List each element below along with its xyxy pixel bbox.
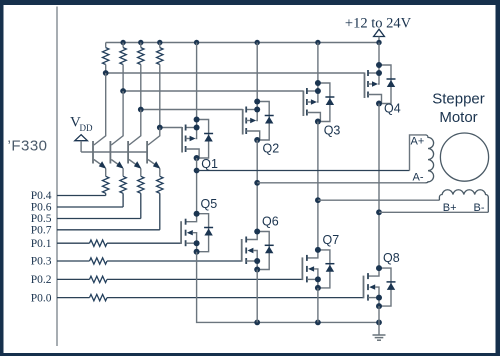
svg-text:P0.1: P0.1	[31, 238, 52, 250]
resistor emitter 1	[57, 169, 109, 196]
label Q3	[324, 124, 341, 138]
label Q4	[384, 102, 401, 116]
resistor emitter 3	[57, 169, 144, 219]
wire common base rail from VDD	[81, 151, 147, 153]
svg-text:P0.0: P0.0	[31, 292, 52, 304]
svg-text:Q7: Q7	[323, 233, 340, 247]
svg-text:Q5: Q5	[201, 197, 218, 211]
wire phase A-	[257, 182, 426, 184]
wire supply to Q4	[378, 43, 380, 66]
wire phase B+	[318, 199, 440, 201]
wire phase A+	[197, 135, 426, 171]
wire phase B-	[379, 211, 488, 213]
resistor gate pull-up R4	[157, 43, 163, 128]
label Q5	[201, 197, 218, 211]
label port P0.4	[31, 190, 52, 202]
svg-text:P0.4: P0.4	[31, 190, 52, 202]
svg-text:B+: B+	[443, 202, 457, 214]
label port P0.2	[31, 274, 52, 286]
label Q2	[263, 142, 280, 156]
wire gate drive to Q4 / node	[103, 70, 365, 76]
wire P0.0 with series resistor to gate	[57, 294, 364, 300]
transistor Q2 (high-side MOSFET)	[243, 99, 274, 144]
svg-text:P0.7: P0.7	[31, 225, 52, 237]
svg-text:Stepper: Stepper	[432, 91, 485, 108]
svg-text:B-: B-	[474, 202, 485, 214]
transistor Q4 (high-side MOSFET)	[365, 62, 396, 107]
svg-text:Q8: Q8	[383, 251, 400, 265]
svg-text:Q4: Q4	[384, 102, 401, 116]
wire P0.2 with series resistor to gate	[57, 276, 302, 282]
transistor Q6 (low-side MOSFET)	[242, 229, 274, 273]
wire rail to Q1	[196, 43, 198, 120]
transistor Q1 (high-side MOSFET)	[182, 117, 213, 162]
svg-text:DD: DD	[80, 123, 93, 133]
motor winding B (B+/B-)	[439, 190, 488, 214]
label port P0.5	[31, 213, 52, 225]
svg-text:’F330: ’F330	[8, 138, 48, 155]
resistor gate pull-up R3	[138, 43, 144, 110]
label port P0.0	[31, 292, 52, 304]
VDD supply symbol	[70, 115, 93, 153]
svg-text:P0.5: P0.5	[31, 213, 52, 225]
svg-text:Motor: Motor	[439, 109, 477, 126]
svg-text:A+: A+	[411, 136, 425, 148]
transistor level-shift NPN 2	[110, 91, 123, 169]
svg-text:Q3: Q3	[324, 124, 341, 138]
wire P0.3 with series resistor to gate	[57, 258, 242, 264]
wire rail to Q3	[317, 43, 319, 84]
svg-text:Q2: Q2	[263, 142, 280, 156]
svg-text:Q1: Q1	[201, 157, 218, 171]
wire Q7 source to rail	[317, 288, 319, 323]
wire Q6 source to rail	[256, 270, 258, 323]
label port P0.6	[31, 202, 52, 214]
svg-text:P0.3: P0.3	[31, 256, 52, 268]
supply +12 to 24V symbol	[345, 16, 412, 43]
label Stepper Motor	[432, 91, 485, 126]
wire rail to Q2	[256, 43, 258, 102]
transistor Q5 (low-side MOSFET)	[181, 211, 213, 255]
microcontroller boundary line	[56, 7, 58, 347]
resistor gate pull-up R2	[120, 43, 126, 92]
wire Q8 source to ground	[378, 306, 380, 335]
wire Q1 to Q5 / node A+	[194, 158, 200, 214]
resistor emitter 4	[57, 169, 163, 230]
label Q6	[262, 215, 279, 229]
svg-text:Q6: Q6	[262, 215, 279, 229]
label port P0.1	[31, 238, 52, 250]
transistor level-shift NPN 3	[128, 110, 141, 169]
motor body circle	[440, 133, 488, 181]
wire P0.1 with series resistor to gate	[57, 240, 181, 246]
transistor level-shift NPN 4	[147, 128, 160, 169]
label Q7	[323, 233, 340, 247]
label port P0.7	[31, 225, 52, 237]
wire Q2 to Q6 / node A-	[254, 140, 260, 232]
label 'F330 (MCU)	[8, 138, 48, 155]
wire Q4 to Q8 / node B-	[376, 104, 382, 269]
wire gate drive to Q3 / node	[120, 88, 303, 94]
svg-text:P0.6: P0.6	[31, 202, 52, 214]
svg-text:A-: A-	[413, 172, 424, 184]
wire bottom source/ground rail	[197, 252, 382, 326]
svg-text:P0.2: P0.2	[31, 274, 52, 286]
motor winding A (A+/A-)	[411, 135, 434, 184]
transistor Q8 (low-side MOSFET)	[364, 265, 396, 309]
label port P0.3	[31, 256, 52, 268]
wire +V top rail	[106, 40, 382, 45]
label Q8	[383, 251, 400, 265]
resistor gate pull-up R1	[103, 43, 109, 74]
svg-text:+12 to 24V: +12 to 24V	[345, 16, 412, 32]
wire gate drive to Q2 / node	[138, 107, 243, 113]
wire Q3 to Q7 / node B+	[315, 122, 321, 250]
ground	[373, 335, 386, 340]
wire gate drive to Q1 / node	[157, 125, 182, 131]
transistor Q7 (low-side MOSFET)	[302, 247, 334, 291]
transistor Q3 (high-side MOSFET)	[303, 80, 334, 125]
label Q1	[201, 157, 218, 171]
resistor emitter 2	[57, 169, 126, 208]
transistor level-shift NPN 1	[93, 73, 106, 169]
